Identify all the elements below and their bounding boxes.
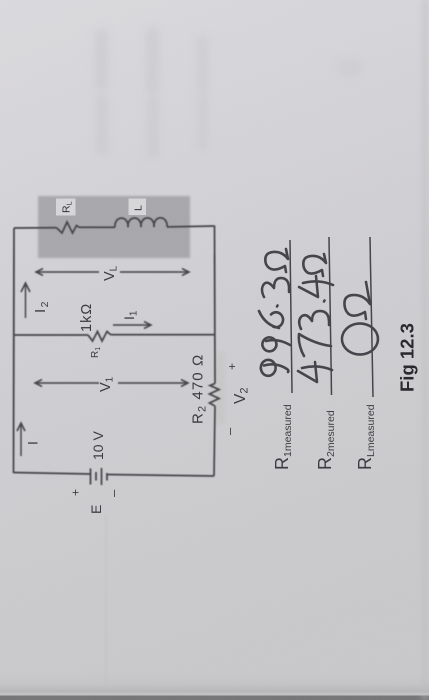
answer blank line 2 bbox=[329, 237, 332, 395]
resistor R1 (1 kohm) zigzag bbox=[88, 332, 111, 342]
handwritten value 0 Ohm bbox=[342, 324, 378, 355]
current arrow I2 (top net toward RL-L branch) bbox=[25, 284, 27, 318]
resistor RL zigzag bbox=[57, 222, 80, 233]
bleed-through smudges top bbox=[95, 28, 364, 158]
current arrow I (source branch) bbox=[20, 424, 22, 456]
answer blank line 3 bbox=[370, 237, 373, 397]
wire: top net (E+ to RL branch top) bbox=[13, 228, 16, 473]
resistor R2 (470 ohm) zigzag bbox=[210, 384, 220, 407]
rotated landscape content : (u,v) -> photo (v, 700-u) bbox=[14, 196, 418, 514]
handwritten value 473.4 Ohm bbox=[298, 362, 332, 382]
handwritten value 996.3 Ohm bbox=[261, 360, 289, 376]
answer blank line 1 bbox=[290, 240, 292, 393]
faint bleed-through right of circuit bbox=[216, 352, 225, 424]
voltage arrow V1 (across R1 branch) bbox=[35, 382, 99, 384]
paper fold crease bbox=[105, 515, 107, 687]
bottom shadow band bbox=[0, 668, 429, 693]
wire: bottom net, E- to R2 bbox=[214, 406, 215, 476]
right edge slight shade bbox=[421, 0, 429, 700]
battery E (10 V source, plates) bbox=[90, 469, 92, 485]
wire: RL to L bbox=[79, 226, 115, 228]
wire: L to bottom net bbox=[167, 225, 215, 228]
current and voltage arrows bbox=[17, 269, 189, 457]
gray highlight band over RL+L branch bbox=[38, 196, 190, 258]
wire: left edge, E- terminal lead bbox=[107, 475, 214, 477]
printed labels bbox=[25, 265, 251, 514]
wire: middle branch lower lead (R1 to bottom net) bbox=[111, 334, 215, 336]
wire: bottom net, R2 to L branch bottom bbox=[214, 226, 217, 384]
inductor L (coil, 4 loops) bbox=[115, 218, 167, 228]
RL label box bbox=[56, 199, 76, 216]
wire: left edge, E+ terminal lead bbox=[14, 473, 91, 475]
voltage arrow VL (across RL + L branch) bbox=[36, 271, 99, 273]
measured rows bbox=[272, 323, 418, 470]
wire: right branch top lead bbox=[14, 227, 57, 229]
handwriting bbox=[259, 249, 378, 382]
current arrow I1 (into R1 branch) bbox=[113, 324, 150, 326]
L label box bbox=[129, 199, 147, 216]
wire: middle branch upper lead (top net to R1) bbox=[14, 334, 88, 336]
